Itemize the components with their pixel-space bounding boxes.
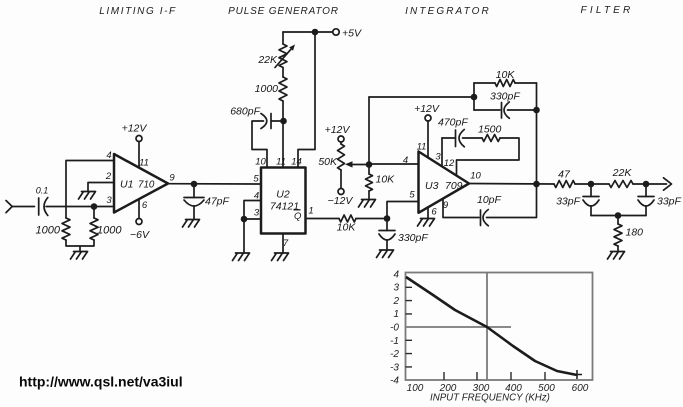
svg-text:6: 6: [142, 200, 148, 211]
svg-text:14: 14: [291, 157, 302, 168]
wire feedback vertical: [368, 97, 370, 174]
op-amp U1 710 triangle: [114, 154, 168, 213]
ground U2 pin 7: [272, 253, 289, 261]
wire 680pF left plate to U2 pin 10: [252, 121, 267, 168]
node feedback right: [533, 107, 540, 114]
ground below input resistors: [71, 252, 88, 260]
capacitor 330pF feedback: [502, 102, 510, 118]
svg-text:-4: -4: [390, 376, 399, 387]
input terminal chevron: [6, 201, 12, 213]
terminal -12V pot: [338, 189, 344, 195]
wire U3 pin 6 to ground: [427, 208, 429, 219]
capacitor 470pF: [456, 130, 465, 147]
svg-text:3: 3: [435, 152, 441, 163]
resistor 1000 right: [90, 218, 98, 240]
svg-text:1000: 1000: [97, 225, 122, 237]
op-amp U3 709 triangle: [419, 152, 470, 213]
svg-text:Q: Q: [294, 211, 302, 222]
wire +5V to U2 pin 14: [298, 32, 315, 168]
svg-text:http://www.qsl.net/va3iul: http://www.qsl.net/va3iul: [19, 374, 183, 390]
node U1 pin3 / R1000 junction: [91, 203, 98, 210]
svg-text:9: 9: [169, 173, 175, 184]
wire U2 pin 1 output: [306, 218, 340, 220]
svg-text:6: 6: [431, 207, 437, 218]
svg-text:50K: 50K: [318, 156, 338, 168]
resistor 1000 left: [62, 218, 70, 240]
svg-text:10K: 10K: [337, 222, 357, 234]
svg-text:10: 10: [255, 157, 266, 168]
svg-text:100: 100: [407, 383, 424, 394]
resistor 47: [554, 181, 575, 188]
wire U1 pin 4 feedback to left: [66, 161, 114, 219]
svg-text:INTEGRATOR: INTEGRATOR: [405, 6, 491, 17]
node feedback left: [471, 94, 478, 101]
potentiometer 50K: [338, 144, 345, 170]
svg-text:−12V: −12V: [328, 195, 354, 207]
wire 1000 to node: [282, 101, 284, 121]
wire node to U2 pin 11: [282, 121, 284, 168]
wire input to C 0.1: [12, 206, 34, 208]
node U1 output: [191, 181, 198, 188]
ground U2 pins 3-4: [233, 253, 250, 261]
svg-text:33pF: 33pF: [556, 196, 581, 208]
wire 180 to ground: [617, 246, 619, 251]
graph frame: [406, 273, 593, 381]
svg-text:22K: 22K: [612, 167, 633, 179]
terminal +12V pot: [338, 136, 344, 142]
graph y ticks: [406, 287, 413, 367]
wire 10K to ground: [368, 191, 370, 199]
wire node down to 330pF: [386, 219, 388, 231]
IC U2 74121 box: [261, 168, 306, 234]
wire U2 pin 4: [244, 201, 261, 220]
node 680pF / pin 11: [280, 118, 287, 125]
capacitor 10pF: [481, 210, 489, 226]
node A filter: [588, 181, 595, 188]
svg-text:11: 11: [139, 158, 149, 169]
wire 10K to node: [356, 218, 387, 220]
svg-text:9: 9: [443, 200, 449, 211]
svg-text:10K: 10K: [376, 174, 396, 186]
wire node to 47pF: [193, 184, 195, 198]
svg-text:33pF: 33pF: [657, 196, 682, 208]
wire U2 pin 7: [282, 234, 284, 253]
wire feedback right vertical: [536, 83, 538, 184]
wire U3 pin 3 riser: [441, 138, 443, 166]
wire 33pF left down: [590, 206, 592, 216]
svg-text:12: 12: [444, 158, 455, 169]
wire +5V rail: [283, 31, 333, 33]
wire node up to U3 pin 5: [387, 202, 419, 219]
svg-text:680pF: 680pF: [230, 106, 260, 118]
capacitor 33pF left: [583, 197, 599, 207]
svg-text:+12V: +12V: [414, 103, 440, 115]
arrow of 22K variable: [275, 45, 295, 68]
terminal -6V U1: [136, 219, 142, 225]
svg-text:3: 3: [393, 283, 399, 294]
node +5V rail: [312, 29, 319, 36]
wire U2 pin 3: [244, 218, 261, 220]
output arrow: [664, 178, 672, 190]
wire 330pF to ground: [386, 240, 388, 250]
svg-text:7: 7: [283, 238, 289, 249]
svg-text:710: 710: [138, 180, 155, 191]
svg-text:0.1: 0.1: [36, 186, 49, 196]
capacitor 330pF integrator input: [379, 231, 395, 241]
wire +12V to 50K: [340, 142, 342, 144]
wire 47pF to ground: [193, 206, 195, 219]
svg-text:1: 1: [393, 309, 399, 320]
svg-text:+12V: +12V: [325, 124, 351, 136]
terminal +12V U1: [136, 136, 142, 142]
svg-text:180: 180: [626, 227, 644, 239]
svg-text:330pF: 330pF: [398, 232, 428, 244]
svg-text:4: 4: [106, 150, 111, 161]
svg-text:3: 3: [254, 208, 260, 219]
wire 33pF right down: [645, 206, 647, 216]
graph response curve: [406, 277, 577, 375]
svg-text:PULSE GENERATOR: PULSE GENERATOR: [228, 6, 339, 17]
svg-text:−6V: −6V: [130, 229, 150, 241]
wire 10pF to output vertical: [487, 184, 537, 218]
resistor 180: [614, 224, 622, 246]
svg-text:-1: -1: [390, 336, 399, 347]
wire node to 180: [617, 216, 619, 225]
resistor 22K variable: [279, 44, 287, 68]
svg-text:22K: 22K: [257, 54, 278, 66]
capacitor 47pF: [184, 198, 204, 207]
terminal +5V: [333, 29, 339, 35]
svg-text:U3: U3: [425, 180, 439, 192]
wire 10K feedback right: [515, 82, 537, 84]
node wiper / U3 pin4 / feedback: [366, 161, 373, 168]
label Q-bar: [294, 210, 303, 222]
wire 470pF to 1500: [463, 137, 483, 139]
svg-text:330pF: 330pF: [490, 91, 520, 103]
wire U1 pin 6 supply: [138, 199, 140, 219]
node U2 pins 3-4 ground tie: [241, 216, 248, 223]
capacitor 33pF right: [638, 197, 654, 207]
resistor 1000 pulse gen: [279, 77, 287, 101]
wire 1500 to U3 pin 12: [457, 138, 520, 176]
svg-text:47: 47: [558, 169, 571, 181]
wire node to resistor 1000 right: [93, 207, 95, 219]
svg-text:+12V: +12V: [122, 123, 148, 135]
svg-text:4: 4: [254, 191, 259, 202]
capacitor 680pF: [261, 114, 271, 129]
wire U3 pin 9 riser: [443, 199, 479, 218]
resistor 1500: [482, 135, 500, 142]
resistor 10K to ground: [366, 174, 373, 191]
ground U1 pin 2: [79, 192, 96, 200]
svg-text:10K: 10K: [496, 69, 516, 81]
svg-text:3: 3: [106, 195, 112, 206]
wire 50K to -12V: [340, 170, 342, 189]
graph vertical marker 320kHz: [486, 273, 488, 381]
wire U1 pin 11 supply: [138, 142, 140, 168]
svg-text:10: 10: [470, 171, 481, 182]
svg-text:U1: U1: [120, 179, 133, 191]
wire node to U3 pin 4: [369, 163, 419, 165]
wire U3 pin 10 output: [469, 183, 554, 186]
graph curve end cross: [572, 370, 582, 379]
wire node B to 33pF right: [645, 184, 647, 197]
resistor 10K feedback: [495, 80, 515, 87]
wiper arrow 50K: [345, 161, 368, 167]
wire U1 pin 9 output: [168, 183, 261, 185]
svg-text:1000: 1000: [255, 83, 279, 95]
wire C0.1 to U1 pin 3: [46, 206, 114, 208]
wire U1 pin 2 to ground: [88, 183, 114, 192]
svg-text:2: 2: [392, 296, 399, 307]
ground U3 pin 6: [418, 219, 435, 227]
wire filter bottom tie: [591, 215, 646, 217]
ground 10K: [359, 200, 376, 208]
svg-text:-3: -3: [390, 362, 399, 373]
wire to 10K feedback: [474, 82, 495, 84]
svg-text:-0: -0: [390, 323, 399, 334]
svg-text:11: 11: [276, 157, 286, 168]
svg-text:U2: U2: [276, 189, 290, 201]
wire tie to ground stub: [79, 246, 81, 251]
svg-text:4: 4: [393, 269, 399, 280]
wire riser to 470pF: [442, 137, 456, 139]
svg-text:INPUT FREQUENCY (KHz): INPUT FREQUENCY (KHz): [430, 393, 550, 404]
svg-text:1500: 1500: [478, 124, 502, 136]
capacitor 0.1 input coupling: [39, 198, 48, 216]
wire to 330pF feedback: [474, 109, 500, 111]
node filter bottom: [615, 212, 622, 219]
svg-text:47pF: 47pF: [205, 196, 230, 208]
svg-text:10pF: 10pF: [477, 194, 502, 206]
wire feedback top horizontal: [369, 96, 474, 98]
svg-text:600: 600: [572, 383, 589, 394]
svg-text:+5V: +5V: [342, 28, 362, 40]
ground 330pF: [377, 250, 394, 258]
wire 22K to output arrow: [633, 183, 667, 185]
wire resistor bottoms tie: [66, 240, 94, 246]
wire feedback left vertical: [473, 83, 475, 110]
ground 180: [608, 252, 625, 260]
svg-text:11: 11: [417, 142, 427, 153]
wire node to ground: [243, 219, 245, 253]
resistor 10K pulse output: [339, 215, 356, 222]
graph zero line: [406, 326, 512, 328]
svg-text:LIMITING I-F: LIMITING I-F: [99, 6, 177, 17]
svg-text:1000: 1000: [36, 225, 61, 237]
node 10K / 330pF / U3 pin5: [384, 215, 391, 222]
ground 47pF: [183, 220, 200, 228]
node U3 output: [533, 181, 540, 188]
terminal +12V U3: [425, 115, 431, 121]
wire node A to 33pF left: [590, 184, 592, 197]
wire rail corner down to 22K: [282, 32, 284, 44]
svg-text:5: 5: [253, 174, 259, 185]
wire U3 pin 11 supply: [427, 121, 429, 158]
wire 22K to 1000: [282, 68, 284, 78]
svg-text:4: 4: [403, 155, 408, 166]
svg-text:1: 1: [308, 206, 313, 217]
wire 680pF right plate to node: [271, 120, 281, 122]
resistor 22K filter: [609, 181, 633, 188]
wire 330pF feedback right: [508, 109, 537, 111]
wire 47 to node A: [575, 183, 609, 185]
svg-text:709: 709: [445, 180, 463, 192]
svg-text:470pF: 470pF: [438, 117, 468, 129]
svg-text:5: 5: [409, 190, 415, 201]
svg-text:2: 2: [105, 171, 112, 182]
svg-text:-2: -2: [390, 349, 399, 360]
graph x ticks: [444, 372, 545, 380]
node B filter: [643, 181, 650, 188]
svg-text:FILTER: FILTER: [581, 5, 634, 16]
